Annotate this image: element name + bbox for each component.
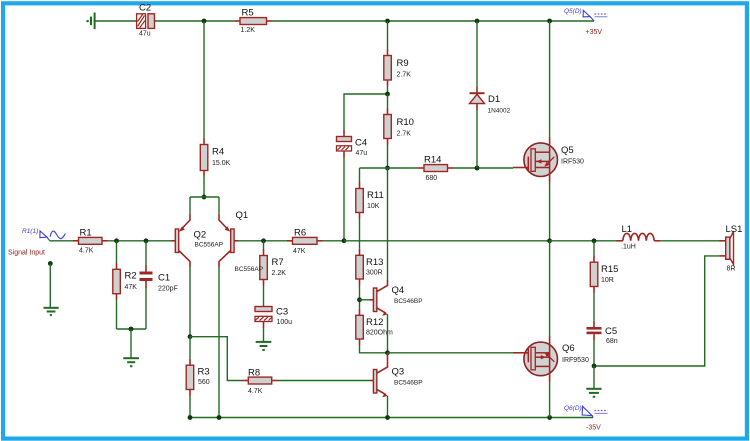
svg-text:10K: 10K	[367, 203, 380, 210]
svg-text:Q6(D): Q6(D)	[564, 405, 582, 412]
wire ground stem	[593, 366, 595, 388]
wire top rail: ground to C2	[95, 20, 137, 22]
svg-text:R6: R6	[294, 228, 306, 239]
junction R15 tap	[592, 238, 597, 243]
wire R8 to Q3 base	[278, 380, 370, 382]
svg-text:BC546BP: BC546BP	[394, 298, 423, 305]
junction R9/R10/C4	[385, 92, 390, 97]
wire input ground stem	[49, 264, 51, 308]
wire LS1 bottom pin down	[594, 256, 720, 366]
svg-text:Q5: Q5	[561, 145, 574, 156]
svg-text:R1: R1	[80, 228, 92, 239]
svg-text:Q5(D): Q5(D)	[564, 8, 582, 15]
wire R8 branch jog	[190, 337, 243, 381]
resistor R8	[243, 368, 278, 395]
wire VAS column (crosses output line, no join)	[387, 168, 389, 280]
wire output line middle	[344, 240, 550, 242]
wire R2 column	[116, 241, 118, 263]
wire C5 to ground node	[593, 340, 595, 366]
resistor R3	[186, 337, 210, 418]
svg-text:47u: 47u	[139, 31, 151, 38]
junction bottom rail / Q1 collector	[217, 415, 222, 420]
wire R2/C1 ground join	[117, 328, 147, 330]
svg-text:47K: 47K	[293, 248, 306, 255]
junction bottom rail / Q3 emitter	[385, 415, 390, 420]
svg-text:100u: 100u	[277, 319, 293, 326]
svg-text:L1: L1	[622, 224, 633, 235]
svg-text:2.7K: 2.7K	[397, 131, 412, 138]
junction emitter rail	[202, 195, 207, 200]
wire output node to Q6 source	[549, 241, 551, 336]
wire R12 to gate line y352.8	[360, 346, 388, 353]
svg-text:R1(1): R1(1)	[22, 228, 38, 235]
wire output line right	[550, 240, 617, 242]
svg-text:R3: R3	[198, 367, 210, 378]
resistor R5	[235, 8, 273, 35]
resistor R12	[356, 309, 393, 346]
svg-text:2.2K: 2.2K	[272, 270, 287, 277]
svg-text:47K: 47K	[125, 284, 138, 291]
svg-text:10R: 10R	[601, 277, 614, 284]
svg-text:4.7K: 4.7K	[79, 247, 94, 254]
svg-text:300R: 300R	[366, 269, 383, 276]
transistor Q1 BC556AP (PNP, mirrored)	[219, 197, 248, 418]
svg-text:Q2: Q2	[194, 230, 207, 241]
svg-text:C1: C1	[158, 273, 170, 284]
wire input to R1	[50, 240, 73, 242]
svg-text:C4: C4	[355, 138, 367, 149]
wire Q6 drain to bottom rail	[549, 382, 551, 418]
svg-text:C5: C5	[605, 326, 617, 337]
wire R1 to Q2 base	[108, 240, 172, 242]
svg-text:R9: R9	[397, 58, 409, 69]
svg-text:220pF: 220pF	[158, 286, 178, 293]
svg-text:R11: R11	[367, 190, 384, 201]
transistor Q2 BC556AP (PNP)	[175, 197, 223, 337]
svg-text:BC556AP: BC556AP	[235, 266, 264, 273]
wire top rail: C2 to R5	[155, 20, 235, 22]
resistor R6	[287, 228, 323, 255]
input terminal with sine source	[40, 231, 66, 241]
svg-text:R5: R5	[242, 8, 254, 19]
resistor R1	[73, 228, 108, 255]
svg-text:Signal Input: Signal Input	[8, 250, 45, 257]
junction R7 tap	[261, 238, 266, 243]
svg-text:R8: R8	[248, 368, 260, 379]
inductor L1	[617, 224, 661, 251]
junction C1 tap	[144, 238, 149, 243]
svg-text:15.0K: 15.0K	[212, 160, 231, 167]
junction R10 / R14 line	[385, 166, 390, 171]
wire top rail: R5 to +35V terminal	[273, 20, 595, 22]
resistor R7	[260, 241, 286, 286]
speaker LS1	[720, 224, 743, 273]
svg-text:560: 560	[198, 379, 210, 386]
wire C4 column top	[344, 94, 388, 130]
svg-text:Q3: Q3	[392, 367, 405, 378]
ground (input)	[44, 308, 59, 315]
svg-text:680: 680	[426, 175, 438, 182]
transistor Q5 IRF530 (N-MOSFET)	[513, 21, 584, 182]
svg-text:47u: 47u	[356, 150, 368, 157]
junction D1 / gate line	[475, 166, 480, 171]
svg-text:2.7K: 2.7K	[397, 72, 412, 79]
wire R14 to Q5 gate	[454, 167, 514, 169]
wire Q1 base to R7 tap	[234, 240, 238, 242]
capacitor C4 (electrolytic)	[337, 130, 368, 241]
svg-text:8R: 8R	[727, 266, 736, 273]
capacitor C5	[587, 322, 618, 345]
svg-text:IRF9530: IRF9530	[562, 357, 589, 364]
ground (top-left, rotated left)	[88, 13, 95, 30]
svg-text:C3: C3	[276, 307, 288, 318]
svg-text:BC546BP: BC546BP	[394, 380, 423, 387]
diode D1 1N4002	[470, 21, 511, 168]
svg-text:LS1: LS1	[726, 224, 743, 235]
wire Q5 source to output node	[549, 182, 551, 241]
junction gate line y352.8 / Q3 collector	[385, 350, 390, 355]
resistor R9	[384, 21, 411, 94]
ground (R2/C1)	[123, 358, 139, 366]
power terminal +35V (Q5(D))	[564, 8, 608, 36]
junction output node (FET midpoint)	[547, 238, 552, 243]
junction C4 / output line	[342, 238, 347, 243]
wire L1 to LS1	[661, 240, 720, 242]
svg-text:R14: R14	[424, 155, 441, 166]
junction Q4 base	[357, 297, 362, 302]
wire R15 to C5	[593, 293, 595, 322]
wire R6 to output line	[323, 240, 345, 242]
junction top rail / R4 column	[202, 19, 207, 24]
capacitor C1	[140, 241, 178, 329]
wire gate line to Q6	[388, 352, 514, 354]
svg-text:R7: R7	[272, 257, 284, 268]
capacitor C2	[137, 3, 155, 38]
resistor R15	[590, 241, 618, 293]
capacitor C3 (electrolytic)	[255, 307, 292, 342]
junction bottom rail / R3	[188, 415, 193, 420]
svg-text:1.2K: 1.2K	[241, 27, 256, 34]
resistor R13	[356, 249, 384, 286]
power terminal -35V (Q6(D))	[564, 405, 608, 432]
transistor Q4 BC546BP (NPN)	[370, 280, 423, 353]
svg-text:Q1: Q1	[236, 210, 249, 221]
svg-text:R4: R4	[212, 147, 224, 158]
junction top rail / D1 column	[475, 19, 480, 24]
svg-text:R2: R2	[125, 271, 137, 282]
transistor Q3 BC546BP (NPN)	[370, 353, 423, 418]
wire Q4 base	[360, 299, 370, 301]
wire bottom rail -35V	[190, 417, 593, 419]
wire R13 to Q4 base node	[359, 286, 361, 309]
svg-text:+35V: +35V	[586, 29, 603, 36]
junction top rail / R9 column	[385, 19, 390, 24]
wire R4 column from top rail	[203, 21, 205, 139]
resistor R11	[356, 168, 384, 219]
svg-text:C2: C2	[139, 3, 151, 14]
resistor R10	[384, 94, 414, 168]
svg-text:R10: R10	[397, 117, 414, 128]
svg-text:.1uH: .1uH	[621, 244, 636, 251]
resistor R2	[113, 263, 137, 300]
svg-text:R13: R13	[366, 257, 383, 268]
wire gate line y168	[360, 167, 419, 169]
svg-text:820Ohm: 820Ohm	[366, 329, 393, 336]
wire R11 to R13 (crosses output line)	[359, 219, 361, 249]
junction top rail / Q5 drain	[547, 19, 552, 24]
svg-text:68n: 68n	[606, 338, 618, 345]
ground (output)	[586, 389, 601, 397]
wire Q2 base pin	[172, 240, 176, 242]
junction Q2 collector / R8 branch	[188, 334, 193, 339]
junction ground stem	[129, 327, 134, 332]
wire R4 to emitter rail	[203, 177, 205, 198]
transistor Q6 IRF9530 (P-MOSFET)	[513, 336, 589, 382]
ground (C3)	[256, 342, 272, 350]
wire R7 to C3	[263, 286, 265, 307]
svg-text:4.7K: 4.7K	[248, 388, 263, 395]
svg-text:D1: D1	[488, 94, 500, 105]
svg-text:Q6: Q6	[562, 343, 575, 354]
svg-text:Q4: Q4	[392, 285, 405, 296]
svg-text:IRF530: IRF530	[561, 159, 584, 166]
node input ground reference	[48, 261, 53, 266]
resistor R4	[200, 139, 230, 177]
junction C5/LS1 ground node	[592, 364, 597, 369]
junction R2 tap	[114, 238, 119, 243]
junction bottom rail / Q6 drain	[547, 415, 552, 420]
resistor R14	[418, 155, 454, 183]
wire R2 bottom to ground join	[116, 300, 118, 329]
wire emitter rail	[190, 196, 219, 198]
svg-text:1N4002: 1N4002	[488, 108, 511, 115]
svg-text:-35V: -35V	[586, 425, 601, 432]
svg-text:R15: R15	[601, 264, 618, 275]
svg-text:R12: R12	[366, 317, 383, 328]
svg-text:BC556AP: BC556AP	[195, 242, 224, 249]
